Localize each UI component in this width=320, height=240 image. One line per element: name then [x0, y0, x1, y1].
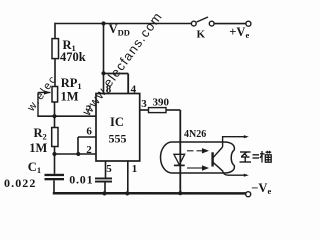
LED D1 triangle: [174, 154, 185, 165]
wire R2 to node B: [54, 147, 56, 155]
wire switch to +Ve: [214, 23, 246, 25]
wire bottom rail: [53, 192, 246, 195]
label zhi (Chinese 至): [240, 152, 252, 162]
wire node B down to C1: [54, 154, 56, 174]
resistor R1: [52, 39, 59, 59]
label dang (Chinese 檔): [260, 151, 271, 163]
svg-text:K: K: [197, 29, 206, 41]
node 6-2 link: [76, 152, 80, 156]
wire 390 to corner: [166, 109, 180, 111]
terminal +Ve circle: [246, 21, 251, 26]
svg-text:6: 6: [86, 126, 92, 138]
svg-text:0.022: 0.022: [4, 176, 37, 190]
svg-text:1: 1: [132, 163, 138, 175]
resistor R2: [52, 128, 58, 147]
transistor Q1 phototransistor: [211, 137, 247, 176]
svg-text:3: 3: [141, 98, 147, 110]
optocoupler 4N26 body: [161, 142, 235, 173]
wire top rail: [55, 23, 192, 25]
wire pin7 line: [37, 115, 96, 117]
svg-text:7: 7: [86, 104, 92, 116]
wire opto LED vertical: [179, 110, 181, 193]
wire R1 to RP1: [54, 59, 56, 87]
svg-text:390: 390: [153, 97, 170, 109]
svg-text:2: 2: [86, 144, 92, 156]
wire RP1 to node A: [54, 102, 56, 128]
svg-text:4N26: 4N26: [184, 129, 206, 140]
switch K: [191, 17, 250, 26]
wire VDD vertical pin8: [103, 24, 105, 94]
wire 6-2 link vertical: [77, 137, 79, 154]
capacitor 0.01 plates: [95, 178, 112, 183]
resistor 390: [149, 108, 167, 113]
potentiometer RP1: [52, 87, 58, 103]
svg-text:1M: 1M: [61, 90, 79, 104]
wire RP1 wiper horizontal: [38, 92, 51, 94]
wire emitter out: [223, 171, 248, 176]
wire RP1 wiper vertical: [37, 93, 39, 117]
node rail 0.01: [102, 191, 106, 195]
svg-text:IC: IC: [110, 115, 124, 129]
wire pin1 down: [127, 161, 129, 193]
wire pin2 line: [55, 153, 97, 155]
svg-text:555: 555: [109, 132, 127, 146]
svg-text:4: 4: [131, 83, 137, 95]
RP1 wiper arrow: [44, 90, 51, 94]
LED light arrows: [187, 149, 208, 170]
node pin4 branch: [101, 71, 105, 75]
node rail pin1: [125, 191, 129, 195]
capacitor C1 plates: [45, 174, 65, 181]
wire pin4 branch vertical: [127, 74, 129, 94]
op-amp U1 IC 555 box: [96, 94, 140, 162]
node B R2 bottom: [52, 152, 56, 156]
terminal -Ve circle: [246, 192, 251, 197]
svg-text:0.01: 0.01: [69, 172, 93, 186]
wire top-left corner down to R1: [54, 23, 56, 39]
wire pin4 branch horizontal: [104, 73, 129, 75]
wire collector out: [223, 137, 247, 147]
svg-text:5: 5: [106, 163, 112, 175]
label equals (DC): [253, 155, 260, 158]
wire pin6 line: [78, 136, 96, 138]
svg-text:8: 8: [106, 84, 112, 96]
wire 0.01 cap bottom lead: [104, 182, 106, 193]
node A RP1 bottom: [52, 114, 56, 118]
svg-text:1M: 1M: [29, 141, 47, 155]
node VDD top: [101, 21, 105, 25]
collector output arrowhead: [244, 135, 249, 138]
node rail opto: [178, 191, 182, 195]
svg-text:470k: 470k: [60, 50, 86, 64]
wire C1 bottom lead: [53, 180, 55, 193]
LED D1 cathode bar: [174, 164, 185, 166]
wire pin3 line: [140, 109, 149, 111]
wire pin5 down: [105, 161, 107, 178]
emitter output arrowhead: [244, 174, 249, 177]
